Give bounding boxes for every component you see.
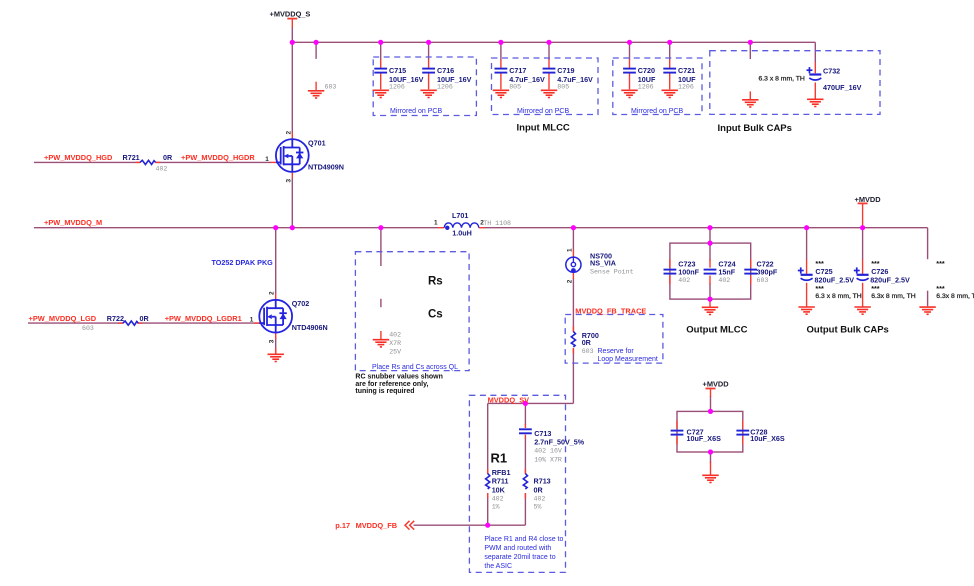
power +MVDD bar at C726: [858, 202, 868, 204]
capacitor C725 electrolytic: [798, 267, 813, 280]
inductor L701: [444, 223, 479, 230]
L701 pin stubs: [438, 227, 444, 229]
wire net +PW_MVDDQ_LGD: [28, 322, 123, 324]
ground C720: [621, 90, 637, 97]
R700 pin stubs: [572, 327, 574, 333]
resistor R721: [140, 160, 156, 164]
ground snubber: [373, 340, 389, 347]
wire Q702 source to ground: [275, 338, 277, 354]
wire MVDDQ_SV horizontal: [488, 402, 574, 404]
svg-text:Mirrored on PCB: Mirrored on PCB: [390, 108, 442, 115]
C726 leads: [862, 260, 864, 275]
capacitor C717: [495, 69, 508, 73]
svg-text:R711: R711: [492, 477, 509, 486]
ground C717: [493, 90, 509, 97]
box input bulk caps: [710, 51, 880, 115]
svg-text:MVDDQ_FB: MVDDQ_FB: [356, 521, 397, 530]
svg-text:402: 402: [156, 166, 168, 173]
svg-text:1206: 1206: [437, 84, 453, 91]
svg-text:C721: C721: [678, 66, 695, 75]
wire C726 lead from M: [862, 228, 864, 260]
svg-text:2: 2: [285, 131, 292, 135]
wire stub in bulk box: [749, 42, 751, 59]
svg-text:Mirrored on PCB: Mirrored on PCB: [517, 108, 569, 115]
svg-text:Loop Measurement: Loop Measurement: [598, 356, 658, 363]
svg-text:Input Bulk CAPs: Input Bulk CAPs: [718, 123, 792, 134]
capacitor C726 electrolytic: [854, 267, 869, 280]
node MVDDQ_FB R711: [485, 523, 490, 528]
node C726 on M: [860, 225, 865, 230]
capacitor C713: [519, 429, 532, 433]
node 603 stub: [314, 40, 319, 45]
svg-text:10uF_X6S: 10uF_X6S: [687, 434, 722, 443]
ground C721: [662, 90, 678, 97]
svg-text:0R: 0R: [582, 338, 592, 347]
svg-text:15nF: 15nF: [718, 267, 735, 276]
svg-text:6.3x 8 mm, T: 6.3x 8 mm, T: [936, 293, 974, 300]
schematic drawn below: [28, 27, 928, 526]
svg-text:6.3 x 8 mm, TH: 6.3 x 8 mm, TH: [815, 293, 861, 300]
ground C732: [807, 99, 823, 106]
C725 leads: [806, 260, 808, 275]
svg-text:402 16V: 402 16V: [534, 448, 562, 455]
ground output MLCC: [702, 307, 718, 314]
node snubber on M: [378, 225, 383, 230]
resistor R700 vertical: [571, 332, 575, 348]
svg-text:603: 603: [82, 325, 94, 332]
ground C727 box: [702, 475, 718, 482]
box MVDDQ_FB_TRACE: [565, 315, 663, 364]
wire C724 middle vertical: [709, 243, 711, 260]
node C727 box top: [708, 409, 713, 414]
svg-text:are for reference only,: are for reference only,: [355, 381, 428, 388]
wire M bus corner down right: [927, 228, 929, 260]
R721 pin stubs: [136, 161, 141, 163]
C727 box ground lead: [710, 462, 712, 475]
svg-text:Cs: Cs: [428, 308, 443, 320]
svg-text:MVDDQ_SV: MVDDQ_SV: [488, 396, 530, 405]
svg-text:PWM and routed with: PWM and routed with: [484, 545, 551, 552]
Q702 drain pin: [275, 294, 277, 301]
wire output MLCC box: [670, 243, 751, 299]
svg-text:402: 402: [389, 331, 401, 338]
svg-text:603: 603: [582, 348, 594, 355]
wire Q701 source to M net: [291, 178, 293, 228]
svg-text:tuning is required: tuning is required: [355, 388, 414, 395]
svg-text:R721: R721: [123, 153, 140, 162]
svg-text:1206: 1206: [389, 84, 405, 91]
svg-text:3: 3: [285, 179, 292, 183]
capacitor C732 electrolytic: [807, 67, 822, 80]
node C721: [667, 40, 672, 45]
wire top bus +MVDDQ_S horizontal: [292, 41, 815, 43]
Q702 ground lead: [275, 348, 277, 354]
wire R713 bottom lead: [524, 494, 526, 526]
wire NS700 bottom to R700: [572, 279, 574, 332]
wire R700 to MVDDQ_SV corner: [572, 349, 574, 404]
Q702 gate pin: [254, 322, 260, 324]
C728 pin segs: [742, 421, 744, 429]
svg-text:10K: 10K: [492, 486, 506, 495]
wire M net right of L701: [484, 227, 928, 229]
svg-text:***: ***: [815, 284, 824, 293]
svg-text:603: 603: [757, 277, 769, 284]
wire C713 to R713: [524, 438, 526, 474]
wire snubber stub from M: [380, 228, 382, 266]
svg-text:10uF_X6S: 10uF_X6S: [750, 434, 785, 443]
C722 pin segs: [750, 259, 752, 267]
capacitor C727: [671, 431, 684, 435]
svg-text:+PW_MVDDQ_M: +PW_MVDDQ_M: [44, 218, 102, 227]
svg-text:Place Rs and Cs across QL: Place Rs and Cs across QL: [372, 364, 458, 371]
wire NS700 top lead: [572, 228, 574, 251]
box RC snubber: [355, 252, 469, 371]
svg-text:TH 1108: TH 1108: [483, 220, 511, 227]
wire net +PW_MVDDQ_LGDR1: [138, 322, 259, 324]
C721 leads: [669, 60, 671, 69]
svg-text:10% X7R: 10% X7R: [534, 457, 562, 464]
wire C721 top lead: [669, 42, 671, 60]
svg-text:5%: 5%: [534, 504, 542, 511]
capacitor C720: [623, 69, 636, 73]
svg-text:Rs: Rs: [428, 276, 443, 288]
svg-text:3: 3: [269, 339, 276, 343]
C713 pin segs: [524, 424, 526, 428]
svg-text:the ASIC: the ASIC: [484, 563, 512, 570]
svg-text:NS_VIA: NS_VIA: [590, 259, 616, 268]
wire C717 top lead: [500, 42, 502, 60]
C719 leads: [548, 60, 550, 69]
C715 leads: [380, 60, 382, 69]
svg-text:402: 402: [678, 277, 690, 284]
svg-text:C715: C715: [389, 66, 406, 75]
wire net +PW_MVDDQ_HGD left: [34, 161, 140, 163]
svg-text:R713: R713: [534, 477, 551, 486]
svg-text:1.0uH: 1.0uH: [452, 228, 472, 237]
wire C727 box to ground: [710, 452, 712, 463]
wire Q702 drain from M: [275, 228, 277, 294]
R713 pin stubs: [524, 469, 526, 474]
svg-text:1: 1: [250, 317, 254, 324]
capacitor C719: [543, 69, 556, 73]
Q701 gate pin: [271, 161, 277, 163]
node C720: [627, 40, 632, 45]
capacitor C716: [422, 69, 435, 73]
wire snubber Rs-Cs middle segment: [380, 299, 382, 307]
svg-text:2: 2: [566, 279, 573, 283]
capacitor C723: [664, 270, 677, 274]
svg-text:+PW_MVDDQ_HGD: +PW_MVDDQ_HGD: [44, 153, 113, 162]
box mirrored C717 C719: [492, 58, 599, 115]
ground C719: [541, 90, 557, 97]
off-page connector p.17 MVDDQ_FB: [405, 521, 414, 530]
svg-text:470UF_16V: 470UF_16V: [823, 83, 862, 92]
snubber ground lead: [380, 331, 382, 339]
transistor Q702: [259, 300, 292, 333]
ground third bulk: [919, 307, 935, 314]
svg-text:***: ***: [936, 284, 945, 293]
svg-text:p.17: p.17: [335, 521, 350, 530]
svg-text:402: 402: [534, 495, 546, 502]
svg-text:603: 603: [325, 84, 337, 91]
wire third bulk cap bottom lead: [927, 291, 929, 307]
node NS700 on M: [571, 225, 576, 230]
transistor Q701: [276, 139, 309, 172]
R722 pin stubs: [118, 322, 123, 324]
svg-text:MVDDQ_FB_TRACE: MVDDQ_FB_TRACE: [575, 307, 646, 316]
output MLCC ground lead: [709, 299, 711, 307]
wire MVDDQ_FB bottom horizontal: [414, 524, 526, 526]
ground bulk box: [742, 100, 758, 107]
svg-text:+PW_MVDDQ_LGDR1: +PW_MVDDQ_LGDR1: [165, 314, 242, 323]
node C715: [378, 40, 383, 45]
svg-text:C717: C717: [509, 66, 526, 75]
wire C727 C728 box: [677, 411, 743, 452]
capacitor C721: [663, 69, 676, 73]
power +MVDD bar at C727 box: [706, 388, 716, 390]
svg-text:+MVDD: +MVDD: [855, 195, 882, 204]
svg-text:Output Bulk CAPs: Output Bulk CAPs: [807, 324, 889, 335]
svg-text:805: 805: [509, 84, 521, 91]
R711 pin stubs: [487, 469, 489, 474]
ground 603 lead: [315, 82, 317, 91]
svg-text:RFB1: RFB1: [492, 468, 511, 477]
svg-text:R722: R722: [107, 314, 124, 323]
node output MLCC on M: [707, 225, 712, 230]
ground C715: [373, 90, 389, 97]
svg-text:separate 20mil trace to: separate 20mil trace to: [484, 554, 555, 561]
svg-text:Reserve for: Reserve for: [598, 348, 635, 355]
svg-text:L701: L701: [452, 211, 468, 220]
ground Q702 source: [268, 354, 284, 361]
Q701 drain pin: [291, 133, 293, 140]
capacitor C724: [704, 270, 717, 274]
resistor R713 vertical: [523, 474, 527, 490]
resistor R711 vertical: [486, 474, 490, 490]
svg-text:+MVDDQ_S: +MVDDQ_S: [270, 10, 311, 19]
node bulk stub: [748, 40, 753, 45]
svg-text:***: ***: [871, 284, 880, 293]
C717 leads: [500, 60, 502, 69]
via NS700: [566, 257, 581, 273]
node MVDDQ_SV: [523, 401, 528, 406]
NS700 pins: [572, 250, 574, 257]
svg-text:1206: 1206: [678, 84, 694, 91]
wire R711 top lead: [487, 403, 489, 473]
svg-text:TO252 DPAK PKG: TO252 DPAK PKG: [212, 258, 274, 267]
node C719: [546, 40, 551, 45]
svg-text:Mirrored on PCB: Mirrored on PCB: [631, 108, 683, 115]
bulk box ground lead: [749, 91, 751, 99]
Q702 source pin: [275, 333, 277, 340]
output MLCC cap pin segs C723: [669, 259, 671, 267]
wire C713 top lead: [524, 403, 526, 425]
svg-text:NTD4906N: NTD4906N: [292, 323, 328, 332]
wire power pin to bus: [291, 27, 293, 43]
svg-text:***: ***: [936, 259, 945, 268]
C724 pin segs: [709, 259, 711, 267]
svg-text:1: 1: [265, 156, 269, 163]
svg-text:1: 1: [566, 248, 573, 252]
node MLCC box top: [707, 241, 712, 246]
svg-text:+PW_MVDDQ_HGDR: +PW_MVDDQ_HGDR: [181, 153, 255, 162]
capacitor C728: [736, 431, 749, 435]
svg-text:100nF: 100nF: [678, 267, 699, 276]
svg-text:6.3 x 8 mm, TH: 6.3 x 8 mm, TH: [759, 75, 805, 82]
svg-text:Input MLCC: Input MLCC: [517, 122, 570, 133]
box place R1: [469, 395, 565, 572]
svg-text:390pF: 390pF: [757, 267, 778, 276]
svg-text:25V: 25V: [389, 349, 401, 356]
svg-text:RC snubber values shown: RC snubber values shown: [355, 374, 443, 381]
svg-text:NTD4909N: NTD4909N: [308, 162, 344, 171]
Q701 source pin: [291, 172, 293, 178]
wire C732 lead from bus corner: [814, 42, 816, 63]
node C716: [426, 40, 431, 45]
svg-text:C732: C732: [823, 66, 840, 75]
wire C725 lead from M: [806, 228, 808, 260]
box mirrored C715 C716: [373, 57, 476, 116]
node C727 box bottom: [708, 449, 713, 454]
C727 pin segs: [676, 421, 678, 429]
svg-text:X7R: X7R: [389, 340, 401, 347]
ground C725: [798, 307, 814, 314]
C716 leads: [428, 60, 430, 69]
svg-text:2: 2: [269, 291, 276, 295]
resistor R722: [123, 321, 139, 325]
node MLCC box bottom: [707, 297, 712, 302]
wire net +PW_MVDDQ_M: [34, 227, 439, 229]
svg-text:2.7nF_50V_5%: 2.7nF_50V_5%: [534, 438, 585, 447]
wire C720 top lead: [629, 42, 631, 60]
svg-text:R1: R1: [491, 451, 508, 466]
svg-text:805: 805: [557, 84, 569, 91]
svg-text:6.3x 8 mm, TH: 6.3x 8 mm, TH: [871, 293, 916, 300]
svg-text:+PW_MVDDQ_LGD: +PW_MVDDQ_LGD: [29, 314, 97, 323]
C720 leads: [629, 60, 631, 69]
svg-text:0R: 0R: [163, 153, 173, 162]
capacitor C715: [374, 69, 387, 73]
wire +MVDD to C727 box: [710, 396, 712, 411]
wire C716 top lead: [428, 42, 430, 60]
wire net +PW_MVDDQ_HGDR: [156, 161, 272, 163]
svg-text:Place R1 and R4 close to: Place R1 and R4 close to: [484, 536, 563, 543]
svg-text:402: 402: [492, 495, 504, 502]
svg-text:0R: 0R: [534, 486, 544, 495]
svg-text:C716: C716: [437, 66, 454, 75]
node bus corner: [290, 40, 295, 45]
ground C716: [420, 90, 436, 97]
wire output MLCC feed: [709, 228, 711, 243]
svg-text:1206: 1206: [638, 84, 654, 91]
ground C726: [854, 307, 870, 314]
capacitor C722: [744, 270, 757, 274]
svg-text:1: 1: [434, 220, 438, 227]
svg-text:Q701: Q701: [308, 138, 326, 147]
wire R711 bottom lead: [487, 494, 489, 526]
ground 603 stub: [308, 91, 324, 98]
node Q701 source on M: [290, 225, 295, 230]
svg-text:C720: C720: [638, 66, 655, 75]
svg-text:0R: 0R: [140, 314, 150, 323]
wire stub to ground 603: [315, 42, 317, 59]
C732 leads: [814, 62, 816, 73]
svg-text:Q702: Q702: [292, 299, 310, 308]
wire C719 top lead: [548, 42, 550, 60]
node C725 on M: [804, 225, 809, 230]
svg-text:402: 402: [718, 277, 730, 284]
node Q702 drain on M: [273, 225, 278, 230]
power +MVDDQ_S bar: [287, 18, 297, 20]
box mirrored C720 C721: [613, 58, 702, 115]
wire C715 top lead: [380, 42, 382, 60]
svg-text:Output MLCC: Output MLCC: [686, 324, 747, 335]
svg-text:1%: 1%: [492, 504, 500, 511]
svg-text:Sense Point: Sense Point: [590, 269, 634, 276]
wire Q701 drain from bus: [291, 42, 293, 133]
svg-text:C719: C719: [557, 66, 574, 75]
node C717: [498, 40, 503, 45]
svg-text:+MVDD: +MVDD: [703, 380, 730, 389]
